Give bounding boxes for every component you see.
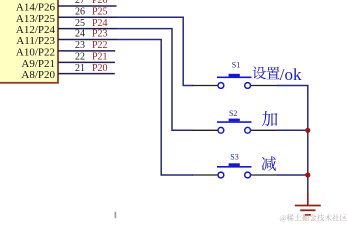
svg-text:A10/P22: A10/P22 — [16, 46, 55, 58]
svg-text:A8/P20: A8/P20 — [21, 69, 55, 81]
svg-text:A13/P25: A13/P25 — [16, 13, 56, 25]
svg-text:22: 22 — [75, 52, 85, 63]
svg-text:26: 26 — [75, 7, 85, 18]
svg-text:P26: P26 — [92, 0, 108, 6]
pin 24 (A11/P23) — [16, 29, 117, 47]
svg-text:27: 27 — [75, 0, 85, 6]
svg-text:P25: P25 — [92, 7, 108, 18]
switch S3 (push-button) — [193, 152, 278, 178]
junction S3/bus — [305, 172, 310, 177]
pin 26 (A13/P25) — [16, 7, 117, 25]
svg-text:P24: P24 — [92, 18, 108, 29]
wire S1 to GND bus — [277, 86, 308, 194]
pin 25 (A12/P24) — [16, 18, 117, 36]
IC U1 body (MCU port pins) — [0, 0, 58, 83]
pin 23 (A10/P22) — [16, 40, 115, 58]
label 减 for S3 — [261, 156, 276, 171]
wire P23 to S3 — [117, 40, 193, 176]
pin 27 (A14/P26) — [16, 0, 117, 14]
switch S1 (push-button) — [193, 61, 278, 89]
svg-text:P23: P23 — [92, 29, 108, 40]
svg-text:23: 23 — [75, 40, 85, 51]
svg-text:21: 21 — [75, 63, 85, 74]
junction S2/bus — [305, 128, 310, 133]
svg-text:A14/P26: A14/P26 — [16, 2, 56, 14]
svg-text:/ok: /ok — [280, 65, 302, 84]
svg-text:A9/P21: A9/P21 — [21, 58, 55, 70]
wire S2 to bus — [277, 129, 308, 131]
ground symbol — [295, 193, 321, 215]
switch S2 (push-button) — [193, 109, 278, 133]
stray mark — [115, 212, 117, 218]
svg-text:A11/P23: A11/P23 — [16, 35, 55, 47]
svg-text:P21: P21 — [92, 52, 108, 63]
svg-text:25: 25 — [75, 18, 85, 29]
pin 21 (A8/P20) — [21, 63, 114, 81]
svg-text:S1: S1 — [232, 61, 240, 70]
svg-text:S3: S3 — [230, 152, 238, 161]
watermark — [280, 214, 347, 222]
label 设置/ok for S1 — [253, 65, 302, 84]
svg-text:P20: P20 — [92, 63, 108, 74]
pin 22 (A9/P21) — [21, 52, 115, 70]
svg-text:S2: S2 — [229, 109, 237, 118]
svg-text:24: 24 — [75, 29, 85, 40]
wire S3 to bus — [277, 174, 308, 176]
wire P24 to S2 — [117, 29, 193, 131]
wire P25 to S1 — [117, 17, 193, 85]
label 加 for S2 — [262, 111, 277, 126]
svg-text:P22: P22 — [92, 40, 108, 51]
